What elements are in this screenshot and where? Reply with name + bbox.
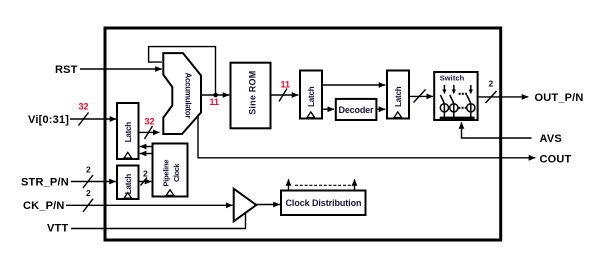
svg-text:Latch: Latch	[394, 86, 403, 107]
wire CK to buffer	[66, 204, 233, 206]
wire accumulator to Sine ROM (11-bit)	[201, 94, 229, 96]
svg-text:2: 2	[143, 169, 148, 179]
clock distribution block	[281, 191, 366, 216]
wire latch U1 to accumulator (32-bit)	[139, 131, 160, 133]
wire Sine ROM to latch U4 (11-bit)	[271, 94, 299, 96]
svg-text:11: 11	[281, 80, 291, 90]
wire switch to OUT_P/N (2-bit)	[478, 96, 529, 98]
svg-text:Sine ROM: Sine ROM	[248, 71, 258, 115]
accumulator U3 (ALU shape)	[163, 53, 201, 134]
wire STR to latch U2	[71, 181, 116, 183]
chip outer boundary box	[105, 28, 501, 240]
pipeline clock block	[153, 144, 188, 197]
svg-text:COUT: COUT	[540, 154, 572, 166]
bus slash STR	[83, 175, 93, 188]
svg-text:11: 11	[210, 97, 220, 107]
wire Vi to latch U1	[70, 118, 116, 120]
switch block	[434, 72, 477, 120]
switch bottom bus bar	[440, 117, 475, 120]
svg-text:2: 2	[86, 188, 91, 198]
clock triangle U1	[124, 152, 132, 158]
bus slash out	[486, 91, 497, 103]
svg-text:Clock Distribution: Clock Distribution	[286, 198, 362, 208]
clock triangle pipeline clock	[166, 190, 174, 196]
wire latch U4 bypass to latch U5	[322, 84, 385, 86]
bus slash Vi	[79, 113, 89, 126]
svg-text:RST: RST	[55, 64, 78, 76]
wire VTT to buffer bottom	[71, 213, 246, 229]
svg-text:2: 2	[489, 79, 494, 89]
wire latch U5 to switch	[409, 95, 433, 97]
latch U5	[387, 71, 409, 119]
wire latch U4 to decoder	[322, 108, 334, 110]
wire RST to accumulator	[80, 68, 162, 70]
svg-text:Switch: Switch	[440, 74, 465, 83]
bus slash 2	[141, 178, 148, 186]
wire AVS into switch bottom	[462, 122, 532, 138]
svg-text:32: 32	[79, 102, 89, 112]
svg-text:32: 32	[145, 117, 155, 127]
wire carry out COUT from accumulator	[198, 115, 535, 158]
switch cell 3	[467, 85, 475, 118]
clock triangle U4	[307, 112, 315, 118]
clock wires pipeline clock to latch U1	[140, 146, 153, 148]
bus slash	[414, 90, 426, 103]
latch U1 (input data latch)	[117, 103, 139, 159]
Sine ROM	[231, 63, 271, 129]
svg-text:2: 2	[86, 165, 91, 175]
ellipsis dots top	[459, 93, 467, 95]
wire latch U2 to pipeline clock (2-bit)	[139, 181, 152, 183]
svg-text:CK_P/N: CK_P/N	[23, 200, 65, 212]
dashed fanout link	[295, 184, 351, 186]
clock fanout arrow right	[354, 179, 356, 190]
clock fanout arrow left	[288, 179, 290, 190]
svg-text:Pipeline: Pipeline	[162, 160, 171, 187]
switch cell 1	[440, 85, 448, 118]
clock buffer triangle	[234, 189, 257, 222]
svg-text:Latch: Latch	[307, 86, 316, 107]
junction dot	[213, 93, 218, 98]
clock triangle U5	[394, 112, 402, 118]
svg-text:Latch: Latch	[124, 122, 133, 143]
bus slash CK	[83, 199, 93, 212]
latch U2 (strobe latch)	[117, 166, 139, 200]
decoder block	[336, 99, 377, 120]
svg-text:Latch: Latch	[124, 174, 133, 195]
svg-text:AVS: AVS	[540, 133, 562, 145]
svg-text:Clock: Clock	[172, 163, 181, 182]
latch U4	[300, 71, 322, 119]
svg-text:Decoder: Decoder	[339, 105, 374, 115]
svg-text:VTT: VTT	[47, 223, 68, 235]
clock triangle U2	[124, 193, 132, 199]
svg-text:OUT_P/N: OUT_P/N	[535, 92, 584, 104]
svg-text:Accumulator: Accumulator	[184, 73, 193, 119]
wire decoder to latch U5	[377, 108, 386, 110]
svg-text:Vi[0:31]: Vi[0:31]	[28, 114, 69, 126]
switch cell 2	[450, 85, 458, 118]
bus slash 11	[279, 89, 287, 102]
svg-text:STR_P/N: STR_P/N	[21, 177, 69, 189]
feedback wire accumulator output to input	[149, 47, 216, 95]
dashed link between cells	[458, 107, 466, 109]
wire buffer to clock distribution	[256, 204, 280, 206]
bus slash 32	[145, 126, 153, 139]
